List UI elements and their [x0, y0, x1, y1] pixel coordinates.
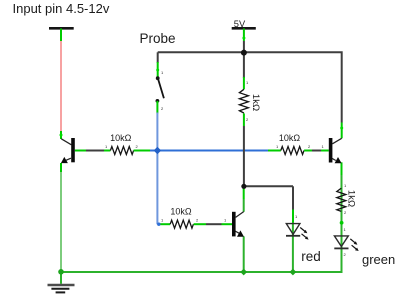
svg-text:1kΩ: 1kΩ	[250, 94, 261, 111]
svg-text:Probe: Probe	[140, 31, 176, 46]
svg-text:1kΩ: 1kΩ	[345, 190, 356, 207]
svg-text:red: red	[301, 249, 321, 264]
svg-text:10kΩ: 10kΩ	[110, 133, 132, 143]
svg-text:green: green	[362, 252, 395, 267]
svg-text:10kΩ: 10kΩ	[170, 207, 192, 217]
svg-text:Input pin 4.5-12v: Input pin 4.5-12v	[13, 1, 110, 16]
svg-text:5V: 5V	[234, 19, 246, 29]
svg-text:10kΩ: 10kΩ	[279, 133, 301, 143]
